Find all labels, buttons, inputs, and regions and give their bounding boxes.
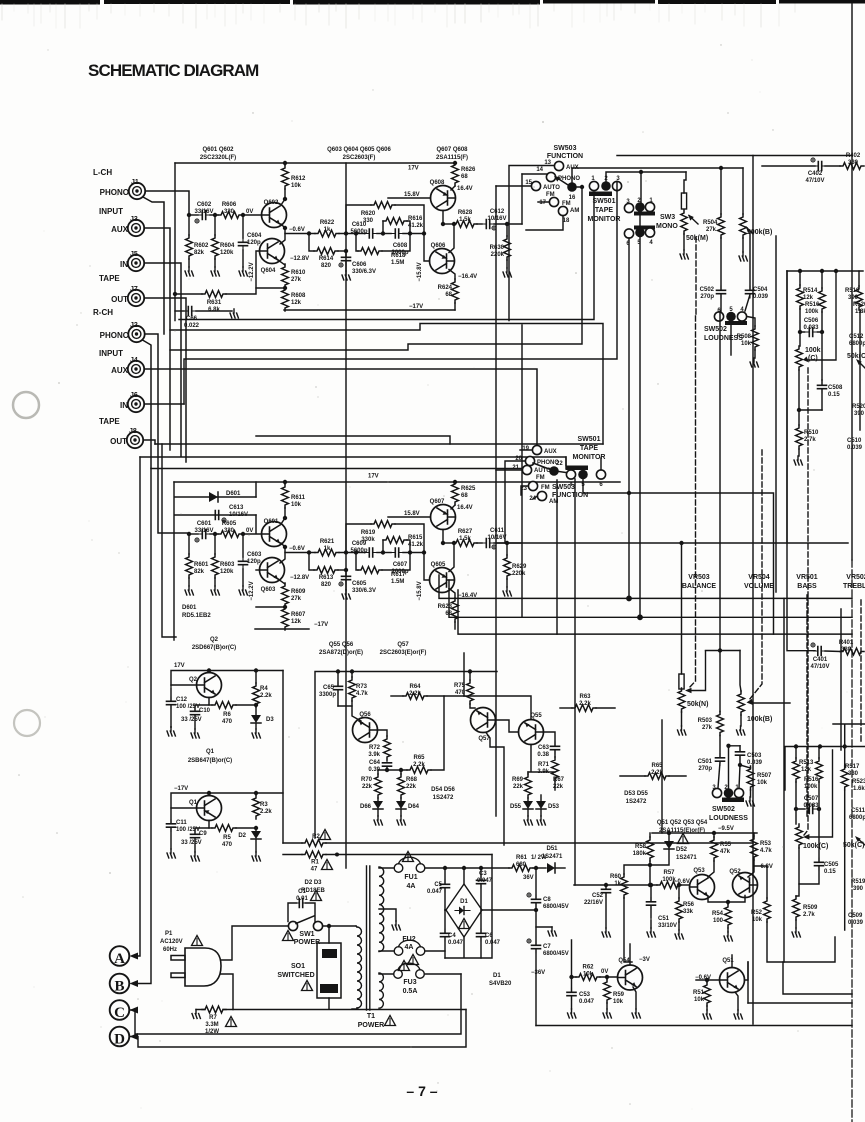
ground bbox=[632, 1009, 640, 1018]
svg-text:50k(C: 50k(C bbox=[847, 353, 865, 360]
svg-text:12k: 12k bbox=[291, 619, 302, 625]
jack J6 bbox=[120, 392, 144, 412]
contact 14 PHONO bbox=[536, 167, 580, 182]
svg-text:Q606: Q606 bbox=[431, 243, 446, 249]
resistor R516 100k bbox=[804, 747, 822, 862]
svg-text:Q601: Q601 bbox=[264, 519, 279, 525]
resistor R7 3.3M 1/2W bbox=[192, 1006, 237, 1035]
svg-text:D1: D1 bbox=[493, 973, 501, 979]
svg-text:C7: C7 bbox=[543, 944, 551, 950]
wire bus L-out2 bbox=[170, 324, 603, 445]
svg-text:Q604: Q604 bbox=[261, 268, 276, 274]
diode D55 bbox=[510, 798, 533, 825]
svg-text:SW3: SW3 bbox=[660, 214, 675, 221]
svg-text:0V: 0V bbox=[246, 528, 253, 534]
contact 18 AM bbox=[558, 206, 579, 224]
svg-text:R3: R3 bbox=[260, 802, 268, 808]
svg-text:PHONO: PHONO bbox=[100, 331, 129, 340]
potentiometer 50k(M) bbox=[680, 172, 708, 259]
wire bbox=[210, 533, 218, 535]
svg-text:R517: R517 bbox=[845, 764, 860, 770]
svg-text:D1: D1 bbox=[460, 899, 468, 905]
svg-text:R60: R60 bbox=[610, 874, 622, 880]
transistor Q54 bbox=[618, 944, 650, 990]
svg-text:Q608: Q608 bbox=[430, 180, 445, 186]
svg-text:−16.4V: −16.4V bbox=[458, 274, 477, 280]
svg-text:C608: C608 bbox=[393, 243, 408, 249]
svg-text:R509: R509 bbox=[803, 905, 818, 911]
contact 21 AUTO FM bbox=[512, 465, 551, 481]
wire bbox=[175, 293, 202, 295]
capacitor C402 47/10V bbox=[762, 158, 840, 184]
svg-text:390: 390 bbox=[853, 886, 864, 892]
svg-text:R-CH: R-CH bbox=[93, 308, 113, 317]
svg-text:MONITOR: MONITOR bbox=[588, 216, 621, 223]
svg-text:0.039: 0.039 bbox=[848, 920, 864, 926]
svg-text:FUNCTION: FUNCTION bbox=[552, 492, 588, 499]
wire 15 feed bbox=[496, 185, 531, 187]
wire bus R-out1 bbox=[439, 575, 852, 598]
svg-text:6.8k: 6.8k bbox=[208, 307, 220, 313]
capacitor C66 0.022 bbox=[184, 307, 196, 316]
svg-text:C601: C601 bbox=[197, 521, 212, 527]
wire bus y173 bbox=[572, 168, 743, 187]
svg-text:AM: AM bbox=[570, 208, 579, 214]
ground bbox=[342, 271, 350, 280]
svg-text:BASS: BASS bbox=[797, 583, 817, 590]
svg-text:100k(B): 100k(B) bbox=[747, 229, 772, 236]
svg-text:2SC2320L(F): 2SC2320L(F) bbox=[200, 155, 236, 161]
resistor R6 470 bbox=[209, 702, 256, 725]
svg-text:D: D bbox=[114, 1032, 125, 1048]
wire gang dashed treble bbox=[860, 600, 862, 743]
terminal D bbox=[110, 1027, 138, 1048]
resistor R605 330 bbox=[218, 531, 242, 538]
transistor Q51 bbox=[695, 958, 744, 993]
wire bbox=[449, 224, 454, 253]
wire J8 lead bbox=[144, 440, 156, 444]
resistor R61 680 1/2W bbox=[509, 855, 547, 871]
wire J1 branch down bbox=[143, 197, 164, 334]
svg-text:0.039: 0.039 bbox=[753, 294, 769, 300]
svg-text:10k: 10k bbox=[613, 999, 624, 1005]
svg-text:SW501: SW501 bbox=[578, 436, 601, 443]
contact 19 AUX bbox=[522, 445, 556, 455]
svg-text:R59: R59 bbox=[613, 992, 625, 998]
wire emitters to R54 bbox=[708, 896, 745, 905]
svg-text:R70: R70 bbox=[361, 777, 373, 783]
wire emitter2 bbox=[278, 579, 285, 584]
svg-text:27k: 27k bbox=[702, 725, 713, 731]
svg-text:R627: R627 bbox=[458, 529, 473, 535]
svg-text:R54: R54 bbox=[712, 911, 724, 917]
svg-text:100k: 100k bbox=[804, 784, 818, 790]
wire bridge bottom bbox=[445, 855, 492, 959]
wire sw502 bbox=[730, 325, 732, 355]
resistor R52 10k bbox=[751, 866, 783, 962]
capacitor C52 22/16V bbox=[584, 883, 611, 937]
svg-text:2SA872(D)or(E): 2SA872(D)or(E) bbox=[319, 650, 363, 656]
resistor R75 470 bbox=[454, 672, 475, 709]
svg-text:0.039: 0.039 bbox=[847, 445, 863, 451]
wire bbox=[284, 508, 286, 518]
resistor R611 10k bbox=[282, 484, 289, 508]
svg-text:C401: C401 bbox=[813, 657, 828, 663]
svg-text:SW501: SW501 bbox=[593, 198, 616, 205]
svg-text:R618: R618 bbox=[391, 253, 406, 259]
svg-text:IN: IN bbox=[120, 260, 128, 269]
resistor R624 68 bbox=[452, 279, 459, 303]
svg-text:R1: R1 bbox=[311, 860, 319, 866]
wire bbox=[451, 505, 455, 509]
transistor Q1 bbox=[189, 796, 222, 821]
diode D2 bbox=[238, 826, 261, 861]
wire J4 lead bbox=[145, 369, 538, 448]
jack J7 bbox=[111, 286, 144, 306]
svg-text:D64: D64 bbox=[408, 804, 420, 810]
svg-text:12k: 12k bbox=[801, 767, 812, 773]
resistor R3 2.2k bbox=[253, 795, 273, 819]
wire 14 feed bbox=[522, 173, 546, 175]
svg-text:68: 68 bbox=[461, 174, 468, 180]
svg-text:820: 820 bbox=[321, 263, 332, 269]
resistor R625 68 bbox=[452, 481, 459, 505]
svg-text:(C): (C) bbox=[808, 355, 818, 362]
jack J1 bbox=[100, 179, 146, 199]
svg-text:10k: 10k bbox=[291, 502, 302, 508]
svg-text:12k: 12k bbox=[803, 295, 814, 301]
wire emitter bbox=[442, 530, 444, 544]
capacitor C11 100/25V bbox=[167, 820, 201, 859]
wire gang dashed volume bbox=[749, 450, 762, 700]
contact 15 AUTO FM bbox=[525, 180, 560, 198]
resistor R514 12k bbox=[797, 271, 818, 346]
wire q51 emitter bbox=[735, 992, 738, 1010]
svg-text:– 7 –: – 7 – bbox=[406, 1083, 437, 1099]
svg-text:R604: R604 bbox=[220, 243, 235, 249]
wire bbox=[345, 570, 347, 575]
svg-text:47k: 47k bbox=[720, 849, 731, 855]
resistor R51 10k bbox=[693, 978, 720, 1019]
svg-text:0.15: 0.15 bbox=[824, 869, 836, 875]
svg-text:330/6.3V: 330/6.3V bbox=[352, 588, 376, 594]
svg-text:SW503: SW503 bbox=[552, 484, 575, 491]
svg-text:Q603 Q604 Q605 Q606: Q603 Q604 Q605 Q606 bbox=[327, 147, 391, 153]
ground stub c8 bbox=[536, 926, 552, 928]
svg-text:22k: 22k bbox=[553, 784, 564, 790]
wire Q51 out bbox=[747, 962, 749, 1003]
capacitor C504 0.039 bbox=[745, 233, 769, 311]
svg-text:C11: C11 bbox=[176, 820, 187, 826]
wire bbox=[345, 251, 347, 256]
svg-text:LOUDNESS: LOUDNESS bbox=[709, 815, 748, 822]
wire left rail bbox=[174, 163, 176, 321]
svg-text:−16.4V: −16.4V bbox=[458, 593, 477, 599]
svg-text:330: 330 bbox=[841, 647, 852, 653]
wire emitter q606 bbox=[449, 270, 455, 280]
svg-text:Q602: Q602 bbox=[264, 200, 279, 206]
diode D601 bbox=[175, 496, 256, 498]
svg-text:47/10V: 47/10V bbox=[805, 178, 824, 184]
svg-text:Q607: Q607 bbox=[430, 499, 445, 505]
jack J2 bbox=[100, 322, 145, 342]
svg-text:120k: 120k bbox=[220, 569, 234, 575]
svg-text:Q2: Q2 bbox=[210, 637, 219, 643]
svg-text:1k: 1k bbox=[324, 227, 331, 233]
potentiometer 100k(C) lower bbox=[796, 750, 833, 850]
resistor right sliver bbox=[856, 271, 863, 310]
svg-text:10k: 10k bbox=[741, 341, 752, 347]
svg-text:−17V: −17V bbox=[409, 304, 423, 310]
switch SW501 TAPE MONITOR bbox=[588, 176, 622, 223]
svg-text:12k: 12k bbox=[291, 300, 302, 306]
potentiometer 100k(B) volume bbox=[737, 651, 791, 736]
svg-text:0.047: 0.047 bbox=[485, 940, 501, 946]
svg-text:0.022: 0.022 bbox=[184, 323, 200, 329]
svg-text:VR501: VR501 bbox=[796, 574, 818, 581]
svg-text:220k: 220k bbox=[512, 571, 526, 577]
svg-text:R513: R513 bbox=[799, 760, 814, 766]
wire bbox=[451, 186, 455, 190]
switch SW3 MONO row2 bbox=[624, 226, 655, 248]
svg-text:100k: 100k bbox=[805, 347, 821, 354]
wire top right y155 bbox=[617, 155, 852, 157]
svg-text:R75: R75 bbox=[454, 683, 466, 689]
svg-text:C502: C502 bbox=[700, 287, 715, 293]
resistor R626 68 bbox=[452, 162, 459, 186]
capacitor C5 0.047 bbox=[427, 866, 450, 910]
ground bbox=[185, 267, 193, 276]
resistor R71 3.9k bbox=[537, 751, 558, 791]
svg-text:470: 470 bbox=[222, 842, 233, 848]
wire stair right bbox=[783, 937, 852, 994]
contact 23 FM bbox=[520, 481, 549, 492]
resistor R604 120k bbox=[212, 235, 219, 259]
svg-text:C51: C51 bbox=[658, 916, 670, 922]
wire right mid vertical bbox=[783, 598, 785, 962]
svg-text:R619: R619 bbox=[361, 530, 376, 536]
svg-text:C9: C9 bbox=[199, 831, 207, 837]
svg-text:MONO: MONO bbox=[656, 223, 678, 230]
wire bbox=[175, 310, 184, 312]
svg-text:R514: R514 bbox=[803, 288, 818, 294]
wire contact feeds bbox=[496, 450, 537, 543]
resistor R629 220k bbox=[504, 555, 511, 579]
svg-text:17: 17 bbox=[539, 200, 546, 206]
wire J2 to C601 node bbox=[145, 334, 187, 533]
svg-text:D2: D2 bbox=[238, 833, 246, 839]
wire -17V rail bbox=[255, 628, 309, 630]
svg-text:22k: 22k bbox=[362, 784, 373, 790]
fuse FU3 0.5A bbox=[379, 961, 461, 996]
svg-text:Q1: Q1 bbox=[206, 749, 215, 755]
svg-text:D53: D53 bbox=[548, 804, 560, 810]
ground bbox=[211, 267, 219, 276]
transistor Q55 bbox=[519, 713, 544, 745]
svg-text:FUNCTION: FUNCTION bbox=[547, 153, 583, 160]
ground bbox=[342, 590, 350, 599]
capacitor C6 0.047 bbox=[477, 910, 501, 958]
svg-text:33/16V: 33/16V bbox=[194, 209, 213, 215]
resistor R64 2.2k bbox=[391, 684, 464, 699]
svg-text:−12.2V: −12.2V bbox=[249, 581, 255, 600]
wire emitter q606 bbox=[449, 589, 455, 599]
resistor R630 220k bbox=[504, 236, 511, 260]
wire signal bbox=[285, 233, 315, 235]
wire bus R-out3 bbox=[458, 590, 852, 634]
svg-text:C1: C1 bbox=[298, 889, 306, 895]
svg-text:R51: R51 bbox=[693, 990, 705, 996]
svg-text:R610: R610 bbox=[291, 270, 306, 276]
resistor R610 27k bbox=[282, 264, 289, 288]
wire bbox=[454, 162, 456, 163]
ground bbox=[503, 268, 511, 277]
svg-text:R621: R621 bbox=[320, 539, 335, 545]
svg-text:0.15: 0.15 bbox=[828, 392, 840, 398]
svg-text:SO1: SO1 bbox=[291, 963, 305, 970]
capacitor C505 0.15 bbox=[799, 848, 839, 884]
capacitor C8 6800/45V bbox=[527, 866, 569, 945]
potentiometer 50k(N) bbox=[678, 541, 709, 735]
capacitor C607 2000p bbox=[391, 548, 403, 557]
svg-text:FU3: FU3 bbox=[403, 979, 416, 986]
svg-text:C65: C65 bbox=[323, 685, 335, 691]
contact 20 PHONO bbox=[515, 456, 559, 466]
svg-text:180k: 180k bbox=[633, 851, 647, 857]
svg-text:C506: C506 bbox=[804, 318, 819, 324]
svg-text:22k: 22k bbox=[406, 784, 417, 790]
svg-text:C66: C66 bbox=[186, 316, 198, 322]
resistor R401 330 bbox=[825, 640, 864, 655]
svg-text:33 /25V: 33 /25V bbox=[181, 840, 202, 846]
svg-text:19: 19 bbox=[522, 446, 529, 452]
wire loop r616 bbox=[382, 540, 384, 553]
resistor R503 27k bbox=[698, 651, 724, 736]
svg-text:100k(C): 100k(C) bbox=[803, 843, 828, 850]
wire J7 lead bbox=[145, 298, 187, 462]
svg-text:2SA1115(F): 2SA1115(F) bbox=[436, 155, 468, 161]
wire base q1 bbox=[171, 807, 197, 809]
scan streaks under top bar bbox=[2, 4, 795, 28]
wire bbox=[280, 228, 285, 244]
svg-text:82k: 82k bbox=[194, 250, 205, 256]
diode D3 bbox=[251, 703, 274, 738]
capacitor C610 5600p bbox=[365, 229, 377, 238]
ground bbox=[503, 587, 511, 596]
resistor R606 330 bbox=[218, 212, 242, 219]
capacitor C12 100/25V bbox=[167, 697, 201, 736]
svg-text:R602: R602 bbox=[194, 243, 209, 249]
svg-text:33/10V: 33/10V bbox=[658, 923, 677, 929]
svg-text:R626: R626 bbox=[461, 167, 476, 173]
svg-text:1k: 1k bbox=[324, 546, 331, 552]
wire x496 bbox=[495, 186, 497, 816]
svg-text:Q607 Q608: Q607 Q608 bbox=[436, 147, 468, 153]
wire bus R-out2 bbox=[449, 580, 852, 617]
capacitor C606 330/6.3V bbox=[342, 253, 351, 265]
svg-text:47/10V: 47/10V bbox=[810, 664, 829, 670]
svg-text:0.047: 0.047 bbox=[448, 940, 464, 946]
resistor R507 10k bbox=[740, 765, 772, 806]
svg-text:TREBLE: TREBLE bbox=[843, 583, 865, 590]
svg-text:R612: R612 bbox=[291, 176, 306, 182]
capacitor C502 270p bbox=[700, 286, 726, 311]
svg-text:R630: R630 bbox=[490, 245, 505, 251]
svg-text:27k: 27k bbox=[291, 277, 302, 283]
svg-text:17V: 17V bbox=[174, 663, 185, 669]
svg-text:−36V: −36V bbox=[531, 970, 545, 976]
wire bottom bus2 bbox=[748, 1002, 852, 1004]
svg-text:C602: C602 bbox=[197, 202, 212, 208]
svg-text:17V: 17V bbox=[408, 166, 419, 172]
wire bbox=[242, 534, 244, 557]
diode D53 bbox=[536, 795, 560, 825]
svg-text:22: 22 bbox=[556, 461, 563, 467]
resistor R73 4.7k bbox=[338, 672, 368, 722]
svg-text:R625: R625 bbox=[461, 486, 476, 492]
wire bus L-out4 bbox=[184, 191, 617, 404]
svg-text:330: 330 bbox=[848, 160, 859, 166]
svg-text:6800p: 6800p bbox=[849, 815, 865, 821]
svg-text:330: 330 bbox=[224, 209, 235, 215]
svg-text:C5: C5 bbox=[434, 882, 442, 888]
svg-text:270p: 270p bbox=[700, 294, 714, 300]
svg-text:C613: C613 bbox=[229, 505, 244, 511]
resistor R609 27k bbox=[282, 583, 289, 607]
resistor sliver lower bbox=[833, 724, 865, 930]
wire bbox=[188, 215, 190, 235]
svg-text:R67: R67 bbox=[553, 777, 565, 783]
svg-text:16.4V: 16.4V bbox=[457, 186, 473, 192]
wire bbox=[403, 552, 424, 554]
switch SW501 TAPE MONITOR mid bbox=[566, 436, 606, 488]
diode D66 bbox=[360, 798, 383, 825]
svg-text:0.047: 0.047 bbox=[579, 999, 595, 1005]
wire node 0V bbox=[242, 533, 262, 535]
wire loop r618 bbox=[356, 234, 358, 252]
svg-text:P1: P1 bbox=[165, 931, 173, 937]
wire bus H y468 bbox=[151, 468, 521, 470]
svg-text:3.9k: 3.9k bbox=[368, 752, 380, 758]
svg-text:R507: R507 bbox=[757, 773, 772, 779]
wire sw3 bbox=[629, 172, 641, 617]
svg-text:D601: D601 bbox=[182, 605, 197, 611]
svg-text:470: 470 bbox=[222, 719, 233, 725]
svg-text:C504: C504 bbox=[753, 287, 768, 293]
svg-text:1S2472: 1S2472 bbox=[626, 799, 647, 805]
svg-text:R6: R6 bbox=[223, 712, 231, 718]
wire bbox=[454, 481, 456, 482]
resistor R616 41.2k bbox=[383, 218, 407, 225]
svg-text:D52: D52 bbox=[676, 847, 688, 853]
wire base bbox=[388, 197, 431, 199]
wire collector bbox=[281, 518, 285, 524]
svg-text:2SC2603(E)or(F): 2SC2603(E)or(F) bbox=[380, 650, 427, 656]
svg-text:B: B bbox=[114, 979, 124, 995]
svg-text:33/16V: 33/16V bbox=[194, 528, 213, 534]
resistor R513 12k bbox=[785, 747, 865, 791]
resistor R627 1.5k bbox=[453, 540, 477, 547]
svg-text:R63: R63 bbox=[579, 694, 591, 700]
svg-text:820: 820 bbox=[321, 582, 332, 588]
wire -17V rail q1 bbox=[171, 793, 283, 823]
capacitor C603 120p bbox=[239, 557, 248, 569]
svg-text:C4: C4 bbox=[448, 933, 456, 939]
svg-text:SCHEMATIC DIAGRAM: SCHEMATIC DIAGRAM bbox=[88, 61, 259, 80]
svg-text:IN: IN bbox=[120, 401, 128, 410]
resistor R619 330k bbox=[371, 521, 395, 528]
svg-text:17V: 17V bbox=[368, 474, 379, 480]
